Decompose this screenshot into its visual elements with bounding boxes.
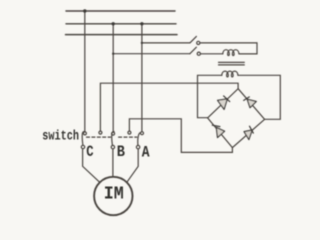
svg-text:IM: IM: [104, 183, 124, 204]
svg-text:switch: switch: [42, 130, 79, 145]
svg-text:A: A: [142, 143, 150, 161]
svg-text:C: C: [86, 143, 94, 161]
svg-text:B: B: [117, 143, 126, 161]
